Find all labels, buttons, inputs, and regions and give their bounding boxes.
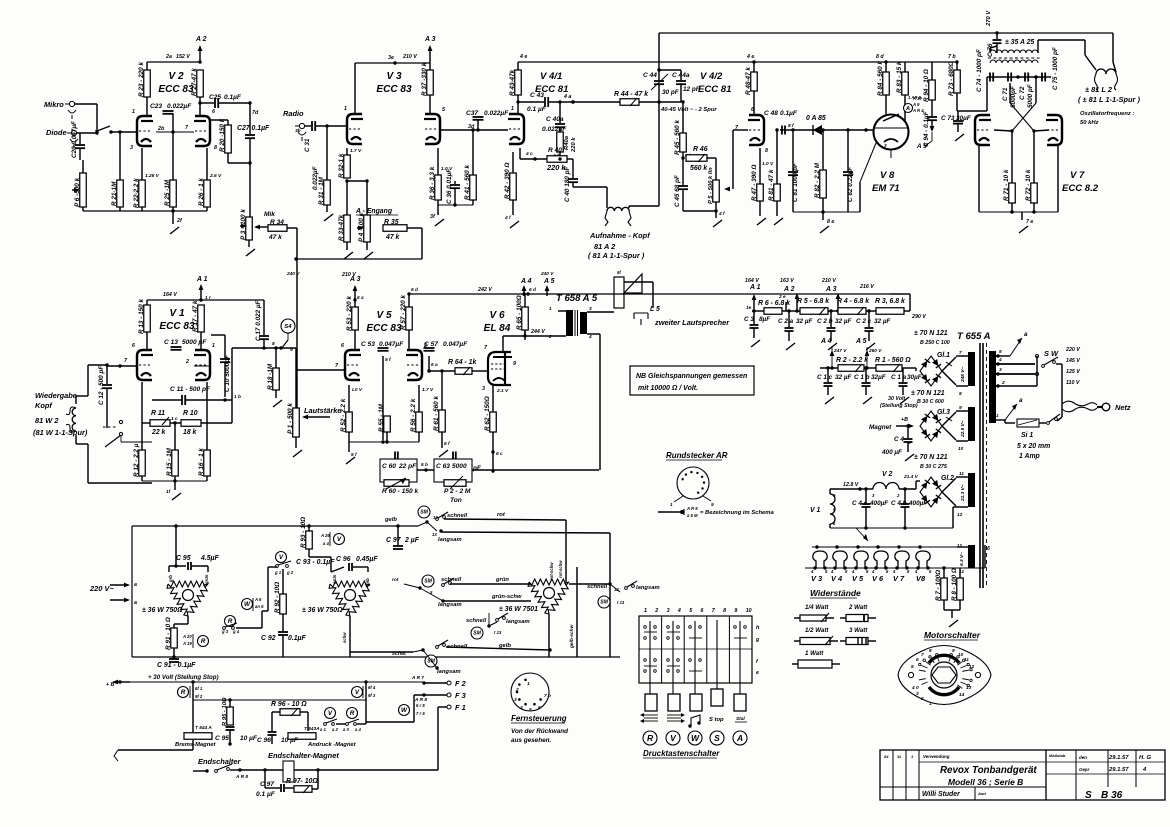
input jack Radio [283,109,306,141]
svg-text:6 r 5: 6 r 5 [416,703,425,708]
resistor R53-220k [346,296,358,349]
svg-text:C 44: C 44 [643,72,657,79]
svg-text:± 70 N 121: ± 70 N 121 [911,390,945,397]
svg-text:47 k: 47 k [268,234,282,241]
label V1 [159,308,195,332]
pushbutton circle W [688,731,702,745]
svg-text:R: R [181,689,186,696]
wire V3 cathode rail [430,203,473,226]
svg-text:R 43-47k: R 43-47k [509,69,516,96]
resistor R83-15k [896,61,922,121]
svg-text:9f 3: 9f 3 [368,693,376,698]
svg-text:10: 10 [958,652,964,658]
node 4a [563,94,620,104]
switch cluster SM mid [466,613,530,639]
svg-text:V 2: V 2 [168,71,184,82]
capacitor C45 68pF [674,158,688,211]
svg-text:Revox Tonbandgerät: Revox Tonbandgerät [940,765,1037,776]
tube V5 left triode [341,343,361,380]
wire 242V rail [409,287,910,296]
svg-text:± 70 N 121: ± 70 N 121 [914,330,948,337]
svg-text:6 c: 6 c [496,451,503,457]
capacitor C2b 32uF [817,309,853,350]
resistor R93-10ohm [300,517,312,557]
svg-text:R 10: R 10 [183,410,198,417]
svg-text:1.0 V: 1.0 V [762,161,774,167]
relay contact R motor1 [182,634,209,648]
svg-text:Rundstecker AR: Rundstecker AR [666,451,728,460]
svg-text:B 30 C 600: B 30 C 600 [917,399,944,405]
svg-text:S top: S top [709,717,724,723]
capacitor C95 10uF [215,727,258,744]
svg-text:L0 V: L0 V [352,387,363,393]
svg-text:3: 3 [916,691,919,697]
svg-text:C 82 0.22µF: C 82 0.22µF [847,166,854,202]
svg-text:R40a: R40a [564,135,570,150]
svg-text:1: 1 [929,701,932,707]
svg-text:R: R [350,710,355,717]
svg-text:B 250 C 100: B 250 C 100 [920,340,950,346]
resistor R12-2.2k [133,382,145,481]
svg-text:grün: grün [204,574,209,585]
svg-text:langsam: langsam [636,585,660,591]
svg-text:A 19: A 19 [182,641,192,646]
capacitor C36 0.01uF [446,168,460,205]
resistor R18-1M [267,346,282,407]
mains cord twisted [1062,401,1102,412]
svg-text:210 V: 210 V [341,272,356,278]
svg-text:C 44a: C 44a [672,72,690,79]
wire relay bottom left [114,750,193,761]
svg-text:Amt: Amt [977,791,986,796]
svg-text:3: 3 [667,608,670,614]
svg-text:30 pF: 30 pF [662,89,680,96]
svg-text:F 3: F 3 [455,691,467,700]
wire bottom rail V2 [83,210,207,212]
pushbutton key W [690,694,702,711]
svg-text:Gl.1: Gl.1 [937,352,950,359]
svg-text:Magnet: Magnet [869,424,892,431]
svg-text:ECC 83: ECC 83 [159,321,195,332]
heater V8 [914,551,932,583]
resistor R72-10k [1025,131,1037,212]
net arrow A2 psu [780,278,799,313]
ground heaters [944,610,960,627]
heater V7 [892,551,910,583]
resistor R96-10ohm [271,701,308,731]
svg-text:C 74 - 1000 pF: C 74 - 1000 pF [976,48,983,92]
svg-text:2 µF: 2 µF [404,537,420,544]
svg-text:A 5: A 5 [543,278,555,285]
svg-text:5 b: 5 b [421,462,428,468]
svg-text:C 91 - 0.1µF: C 91 - 0.1µF [157,662,196,669]
svg-text:4 a: 4 a [563,94,571,100]
wire return rail [286,228,422,277]
recording head Aufnahme-Kopf [588,207,651,260]
tube V8 EM71 [872,114,909,194]
tube V3 right triode [424,107,446,144]
svg-text:± 36 W 7501: ± 36 W 7501 [499,606,538,613]
pushbutton circle V [666,731,680,745]
svg-text:R 25 -1M: R 25 -1M [164,179,171,206]
resistor R5-6.8k [786,298,830,315]
svg-text:R 1 - 560 Ω: R 1 - 560 Ω [875,357,911,364]
variable capacitor C44 30pF [643,33,680,102]
svg-text:4 e: 4 e [519,54,527,60]
svg-text:P 3 - 100 k: P 3 - 100 k [240,209,247,240]
svg-text:10: 10 [746,608,752,614]
svg-text:C 1 b: C 1 b [854,374,870,381]
svg-text:32 µF: 32 µF [796,318,814,325]
motor 1 winding [142,574,209,616]
switch Endschalter [193,757,248,780]
capacitor C27 0.1uF [228,125,270,165]
pushbutton S plunger [716,620,718,689]
svg-text:248 V~: 248 V~ [960,367,966,383]
resistor R22-2.2k [133,148,160,211]
key symbol A [735,716,747,722]
svg-text:R 16 - 1 k: R 16 - 1 k [198,448,205,476]
svg-text:6 f: 6 f [444,441,450,447]
motor switch pin numbers [911,648,975,707]
svg-text:grb: grb [168,575,173,583]
wire motor2 bottom [342,616,413,657]
connector Fernsteuerung [511,673,568,744]
svg-text:R 93 - 10Ω: R 93 - 10Ω [300,517,307,548]
svg-text:Kopf: Kopf [35,401,53,410]
node 2f [171,209,183,224]
svg-text:A R 7: A R 7 [411,675,424,681]
svg-text:R 61 - 560 k: R 61 - 560 k [433,396,440,431]
svg-text:V 1: V 1 [169,308,185,319]
svg-text:5000: 5000 [452,463,467,470]
ground 4f P5 [683,209,725,227]
svg-text:A 4: A 4 [820,338,832,345]
capacitor C53 0.047uF [361,341,404,440]
svg-text:3: 3 [482,386,485,392]
rectifier Gl1 [914,330,950,386]
svg-text:11: 11 [959,471,964,477]
svg-text:C 71: C 71 [1002,87,1009,101]
svg-text:R 96 - 10 Ω: R 96 - 10 Ω [271,701,307,708]
relay contacts V R a1-a4 [320,700,366,732]
svg-text:R 95 - 10Ω: R 95 - 10Ω [222,697,228,726]
svg-text:Drucktastenschalter: Drucktastenschalter [643,749,720,758]
resistor R31-1M [318,124,333,221]
svg-text:an 5: an 5 [255,604,264,609]
capacitor C10 5000pF [211,335,231,397]
svg-text:S: S [714,733,720,743]
svg-text:± 36 W 750Ω: ± 36 W 750Ω [302,607,343,614]
switch playback [103,420,152,447]
svg-text:C 93 - 0.1µF: C 93 - 0.1µF [296,559,335,566]
svg-text:242 V: 242 V [477,287,492,293]
svg-text:5: 5 [911,664,914,670]
svg-text:2.6 V: 2.6 V [209,173,222,179]
capacitor C23 0.022uF [150,100,192,136]
svg-text:± 35 A 25: ± 35 A 25 [1005,39,1034,46]
wire rot [444,512,566,582]
legend 1 Watt [792,650,840,668]
capacitor C20 0.047uF [71,120,85,160]
svg-text:den: den [1079,755,1087,760]
wire V6 plate [503,311,566,352]
svg-text:9: 9 [513,361,516,367]
svg-text:152 V: 152 V [176,54,190,60]
resistor R42-390ohm [504,152,519,228]
switch input select [95,126,112,134]
svg-text:EM 71: EM 71 [872,183,900,194]
potentiometer P2-2M [444,476,471,504]
capacitor C72 5000pF [1016,73,1034,109]
resistor R35 47k [383,219,422,241]
svg-text:C 3: C 3 [744,316,754,323]
pushbutton V contacts [667,621,680,694]
capacitor C94-0.1uF [923,106,937,147]
svg-text:gnb: gnb [365,578,370,587]
svg-text:C27 0.1µF: C27 0.1µF [237,125,270,132]
svg-text:R 60 - 150 k: R 60 - 150 k [382,488,418,495]
label V4/2 [698,71,731,95]
wire V2 supply rail [147,54,200,62]
svg-text:2b: 2b [157,126,165,132]
wire V7 bottom rail [979,146,1058,233]
svg-text:g 2: g 2 [286,570,294,575]
svg-text:C 92: C 92 [261,635,276,642]
svg-text:Oszillatorfrequenz :: Oszillatorfrequenz : [1080,111,1134,117]
svg-text:C 95: C 95 [176,555,191,562]
svg-text:29.1.57: 29.1.57 [1108,767,1129,773]
svg-text:C 75 - 1000 pF: C 75 - 1000 pF [1052,46,1059,90]
pushbutton key R [645,694,657,711]
voltage selector SW [1042,347,1081,404]
pushbutton key A [734,694,746,711]
net arrow A5 psu [855,338,882,370]
svg-text:1: 1 [549,306,552,312]
svg-text:C 97: C 97 [386,537,402,544]
resistor R27-47k [191,68,203,116]
svg-text:langsam: langsam [506,619,530,625]
capacitor C4c 400uF [852,487,889,528]
svg-text:A - Engang: A - Engang [355,208,393,215]
svg-text:2 e: 2 e [778,294,786,300]
svg-text:gelb: gelb [384,517,397,523]
svg-text:1 Amp: 1 Amp [1019,453,1040,460]
svg-text:A 10: A 10 [912,96,922,101]
pushbutton A contacts [734,621,747,694]
svg-text:R 8 - 100 Ω: R 8 - 100 Ω [951,568,958,601]
svg-text:12: 12 [957,512,963,518]
net arrow A3 top [424,36,436,63]
svg-text:6: 6 [987,546,990,552]
tube V4/1 triode [508,106,524,144]
motor switch pins [919,654,973,689]
svg-text:V 7: V 7 [893,574,905,583]
svg-text:R 56 - 2.2 k: R 56 - 2.2 k [410,398,417,432]
svg-text:210 V: 210 V [821,278,836,284]
svg-text:C25: C25 [209,94,221,101]
svg-text:6 d: 6 d [529,287,536,293]
svg-text:5 x 20 mm: 5 x 20 mm [1017,443,1050,450]
svg-text:R 44 - 47 k: R 44 - 47 k [614,91,649,98]
svg-text:W: W [401,707,408,714]
svg-text:2: 2 [920,696,924,702]
svg-text:C 17 0.022 µF: C 17 0.022 µF [255,299,262,341]
svg-text:V 5: V 5 [376,310,392,321]
svg-text:C 48: C 48 [764,110,778,117]
svg-text:C 81 1000 pF: C 81 1000 pF [792,162,799,202]
capacitor C4b 400uF [891,487,928,528]
svg-text:7 r 6: 7 r 6 [416,711,425,716]
resistor R57-220k [400,287,418,349]
svg-text:Von der Rückwand: Von der Rückwand [511,728,568,735]
svg-text:a: a [1019,397,1023,404]
resistor R17-47k [192,300,204,350]
svg-text:8: 8 [929,648,932,654]
svg-text:7 e: 7 e [1026,219,1033,225]
svg-text:10 µF: 10 µF [240,735,258,742]
capacitor C2a 32uF [778,309,814,350]
svg-text:t 13: t 13 [617,600,625,605]
resistor R1-560ohm [864,357,916,372]
svg-text:S4: S4 [284,324,292,330]
svg-text:400µF: 400µF [908,500,928,507]
svg-text:( ± 81 L 1-1-Spur ): ( ± 81 L 1-1-Spur ) [1078,95,1140,104]
svg-text:grün: grün [332,574,337,585]
svg-text:3 Watt: 3 Watt [849,627,868,634]
resistor R91-10ohm [165,616,188,657]
svg-text:pF: pF [472,465,482,472]
svg-text:S W: S W [1044,349,1059,358]
resistor R3-6.8k [866,294,926,320]
svg-text:Aufnahme - Kopf: Aufnahme - Kopf [589,231,651,240]
svg-text:R 18 -1M: R 18 -1M [267,363,274,390]
svg-text:R 92 - 10Ω: R 92 - 10Ω [274,582,281,613]
wire motor top rail [132,517,418,657]
pushbutton W contacts [689,621,702,694]
svg-text:32 µF: 32 µF [835,374,853,381]
svg-text:C 60: C 60 [382,463,396,470]
oscillator coil 35A25 [988,39,1085,63]
resistor R15-1M [166,423,178,481]
svg-text:a: a [134,600,137,606]
svg-text:8: 8 [765,148,768,154]
tube V2 right triode [194,109,217,151]
svg-text:6.3 V~: 6.3 V~ [959,552,965,566]
svg-text:C 43: C 43 [530,92,544,99]
svg-text:W: W [691,733,700,743]
svg-text:1/2 Watt: 1/2 Watt [805,627,829,634]
svg-text:a 2: a 2 [332,727,339,732]
svg-text:R 40: R 40 [548,147,562,154]
switch cluster SM P [418,506,467,543]
svg-text:V 8: V 8 [880,170,895,181]
key symbol W note [688,715,700,728]
svg-text:R 52 - 2.2 k: R 52 - 2.2 k [340,398,347,432]
relay contact R g3g4 [221,616,240,635]
resistor R71-10k [1003,131,1015,212]
wire trafo secondary [587,312,614,470]
svg-text:4 0: 4 0 [911,685,919,691]
svg-text:6: 6 [701,608,704,614]
svg-text:4: 4 [519,705,523,711]
svg-text:260 V: 260 V [868,348,882,354]
svg-text:R 71 - 10 k: R 71 - 10 k [1003,169,1010,201]
wire gruen-schw [443,594,531,601]
svg-text:R 94 - 10 Ω: R 94 - 10 Ω [923,69,930,102]
capacitor C75-1000pF [1034,46,1059,90]
heater rail top [812,545,957,548]
connector legend [658,506,774,518]
svg-text:R 83 - 15 k: R 83 - 15 k [896,61,903,93]
svg-text:0.45µF: 0.45µF [356,556,378,563]
svg-text:C 97: C 97 [260,781,274,788]
resistor R52-2.2k [340,385,363,442]
label V7 [1062,170,1099,194]
wire 210V rail [355,54,430,113]
svg-text:A 3: A 3 [825,286,837,293]
svg-text:3: 3 [130,145,133,151]
svg-text:6: 6 [132,343,135,349]
mains input 220V [89,582,137,606]
rail AR7 +30V [106,674,424,688]
pushbutton key S [711,689,723,706]
svg-text:C 45 68 pF: C 45 68 pF [674,174,681,207]
svg-text:C23: C23 [150,103,162,110]
key symbol R rewind [640,713,658,723]
wire V5 grid [296,363,345,370]
svg-text:A R 5: A R 5 [686,506,698,511]
transformer core [980,343,987,588]
capacitor C96 0.45uF [331,556,378,572]
svg-text:Diode: Diode [46,128,67,137]
capacitor C92 0.1uF [261,632,307,657]
svg-text:A R 8: A R 8 [235,774,248,780]
svg-text:84: 84 [884,754,889,759]
svg-text:V 3: V 3 [811,574,823,583]
svg-text:1: 1 [527,681,530,687]
svg-text:V 1: V 1 [810,507,820,514]
svg-text:4.5µF: 4.5µF [200,555,220,562]
resistor R94-10ohm [923,62,935,106]
resistor R10 18k [170,400,232,436]
ground P3 [246,249,255,256]
svg-text:SM: SM [424,579,432,585]
wire top rail 270V [659,10,1113,33]
wire diode node [77,131,99,134]
svg-text:1: 1 [644,608,647,614]
svg-text:SM: SM [473,631,481,637]
resistor R2-2.2k [820,357,869,372]
terminal F2 [411,675,467,688]
svg-text:0.1µF: 0.1µF [224,94,242,101]
wire V8 bottom rail [793,143,876,233]
svg-text:A 9: A 9 [912,102,920,107]
svg-text:V 2: V 2 [882,471,892,478]
svg-text:H. G: H. G [1139,755,1151,761]
svg-text:4: 4 [677,608,681,614]
svg-text:1.25 V: 1.25 V [145,173,160,179]
svg-text:9: 9 [952,648,955,654]
svg-text:R 13 - 150 k: R 13 - 150 k [138,299,145,334]
capacitor C37 0.022uF [466,108,509,132]
svg-text:2 Watt: 2 Watt [848,604,868,611]
svg-text:a 4: a 4 [355,727,362,732]
resistor R7-100ohm [935,566,947,610]
svg-text:R 37 -330 k: R 37 -330 k [421,62,428,96]
svg-text:P 5 - 500 k lin: P 5 - 500 k lin [708,167,714,204]
svg-text:B 30 C 275: B 30 C 275 [920,464,948,470]
